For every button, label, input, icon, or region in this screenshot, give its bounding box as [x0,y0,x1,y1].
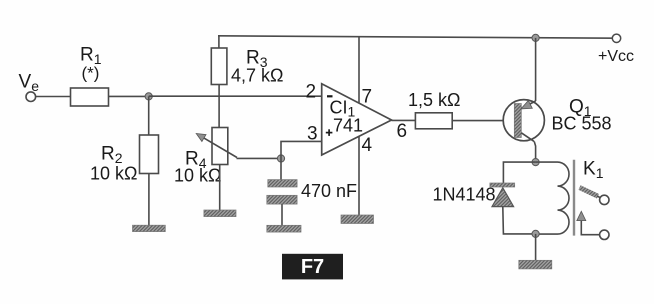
wire R1 to node A [109,95,149,97]
wire node B down to capacitor [280,159,282,180]
wire Ve to R1 [36,96,71,98]
svg-text:+Vcc: +Vcc [598,48,634,65]
wire contact to top terminal [597,196,601,198]
node rail junction [532,34,539,41]
svg-text:(*): (*) [82,64,100,83]
svg-text:BC 558: BC 558 [552,114,612,134]
op-amp U1 CI1 741 [322,84,392,155]
wire R5 to Q1 base [452,120,514,122]
svg-text:10 kΩ: 10 kΩ [90,164,137,184]
node A junction [145,93,152,100]
resistor R3 [211,48,227,85]
wire R2 to ground [148,174,150,226]
svg-text:2: 2 [306,82,317,103]
svg-text:10 kΩ: 10 kΩ [174,166,221,186]
capacitor C1 470nF [267,180,297,205]
ground under capacitor [267,225,301,232]
wire node A to pin 2 [149,95,322,97]
wire Q1 collector down [534,141,535,162]
relay core line [573,160,575,236]
potentiometer R4 [196,128,237,165]
svg-text:470 nF: 470 nF [301,181,357,201]
wire capacitor to ground [281,204,283,226]
resistor R1 [71,88,109,106]
svg-text:3: 3 [307,124,318,145]
terminal switch top [600,195,609,204]
label F7 box [282,254,343,280]
op-amp plus sign [326,129,333,136]
terminal Ve [26,92,36,102]
svg-text:1N4148: 1N4148 [433,185,496,205]
resistor R2 [140,135,159,174]
terminal +Vcc [612,34,620,42]
svg-text:F7: F7 [301,256,324,278]
transistor Q1 [503,100,544,142]
wire node B up to pin 3 [281,141,322,158]
wire R4 wiper to node B [237,157,282,159]
wire rail to Q1 emitter [535,38,537,101]
diode D1 1N4148 [490,183,515,207]
ground under pin 4 [341,215,374,224]
node D junction [532,230,539,237]
relay switch contact bar [580,188,599,197]
ground under relay [519,260,552,269]
wire node A down to R2 [148,96,150,135]
wire pin 4 to ground [358,136,360,215]
svg-text:7: 7 [362,87,373,108]
relay coil K1 [536,162,569,234]
svg-text:6: 6 [397,121,408,142]
relay switch arrow [577,211,600,234]
wire top +Vcc rail [218,36,616,38]
wire pin 6 to R5 [392,119,416,121]
wire R3 to R4 [218,85,220,128]
wire R4 to ground [219,165,221,211]
node B junction [277,155,284,162]
op-amp minus sign [327,95,333,97]
node C junction [532,159,539,166]
resistor R5 1,5k [415,113,452,129]
ground under R4 [204,210,236,217]
wire diode bottom to node D [503,207,536,234]
svg-text:4,7 kΩ: 4,7 kΩ [231,66,283,86]
wire node D to ground [535,234,537,261]
wire rail corner down to R3 [218,36,220,48]
svg-text:741: 741 [333,116,363,136]
svg-text:4: 4 [362,135,373,156]
wire node C to diode top [503,162,535,183]
ground under R2 [133,225,166,231]
svg-text:1,5 kΩ: 1,5 kΩ [408,90,460,110]
terminal switch bottom [600,230,609,239]
wire pin 7 to rail [358,37,360,103]
